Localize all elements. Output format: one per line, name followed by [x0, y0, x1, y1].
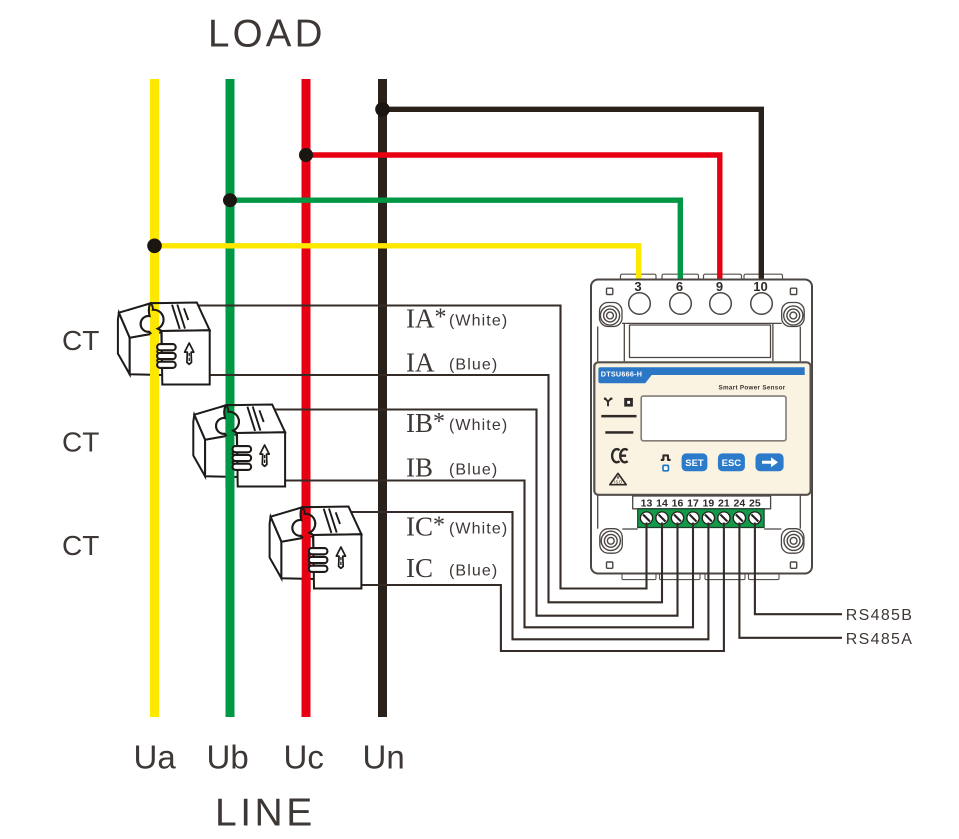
svg-text:(Blue): (Blue): [449, 462, 498, 479]
svg-text:LOAD: LOAD: [208, 13, 326, 56]
bar icon 2: [605, 431, 633, 434]
svg-text:RS485B: RS485B: [846, 607, 913, 624]
wire IC* white : CT3 to terminal 19: [348, 512, 708, 639]
svg-text:IB*: IB*: [406, 408, 445, 438]
svg-text:CT: CT: [62, 530, 99, 561]
antenna icon: [605, 398, 611, 406]
SET button: [682, 453, 708, 471]
svg-text:24: 24: [734, 498, 746, 510]
svg-text:Ua: Ua: [134, 739, 177, 776]
warning triangle: [610, 473, 626, 484]
phase line Ua (yellow vertical): [150, 79, 159, 717]
wire IB* white : CT2 to terminal 16: [272, 410, 678, 616]
wire: Ua branch to terminal 3: [155, 246, 639, 279]
wire RS485B from terminal 25: [755, 523, 842, 615]
LCD display: [641, 396, 786, 441]
wire RS485A from terminal 24: [739, 523, 842, 638]
svg-text:14: 14: [656, 498, 668, 510]
svg-text:13: 13: [641, 498, 653, 510]
svg-text:(White): (White): [449, 521, 508, 538]
wiring window: [630, 325, 771, 358]
pulse icon: [661, 455, 671, 460]
svg-text:IC: IC: [406, 553, 433, 583]
svg-text:IA*: IA*: [406, 304, 447, 334]
junction dot on Un: [375, 102, 390, 117]
wire IA* white : CT1 to terminal 13: [197, 306, 647, 589]
phase line Uc (red vertical): [302, 79, 311, 717]
CT clamp 2 (phase B): [193, 405, 285, 489]
terminal numbers 3 6 9 10: [634, 279, 767, 294]
corner screw bottom-left: [601, 531, 620, 550]
svg-text:IA: IA: [406, 347, 435, 377]
svg-text:9: 9: [716, 279, 723, 294]
corner screw top-left: [600, 306, 619, 325]
wire IC blue : CT3 to terminal 21: [357, 523, 724, 652]
bottom plate cuts: [598, 495, 804, 553]
svg-text:3: 3: [634, 279, 641, 294]
svg-text:ESC: ESC: [722, 458, 742, 469]
svg-text:CT: CT: [62, 325, 99, 356]
svg-text:LINE: LINE: [215, 792, 316, 835]
wire IB blue : CT2 to terminal 17: [281, 481, 693, 628]
arrow button: [756, 453, 784, 471]
svg-text:CT: CT: [62, 427, 99, 458]
svg-text:Uc: Uc: [284, 739, 324, 776]
junction dot on Ua: [147, 239, 162, 254]
junction dot on Uc: [299, 148, 313, 162]
terminal screws: [640, 512, 761, 524]
wire: Uc branch to terminal 9: [306, 155, 720, 279]
svg-text:Un: Un: [363, 739, 405, 776]
wire IA blue : CT1 to terminal 14: [205, 375, 662, 602]
svg-text:SET: SET: [685, 458, 704, 469]
svg-text:(Blue): (Blue): [449, 563, 498, 580]
small square top-left: [607, 288, 613, 294]
svg-text:(Blue): (Blue): [449, 357, 498, 374]
svg-text:Ub: Ub: [207, 739, 249, 776]
wire: Ub branch to terminal 6: [230, 200, 680, 279]
wire: Un branch to terminal 10: [383, 109, 762, 279]
small square top-right: [790, 288, 796, 294]
small square bottom-right: [790, 562, 796, 568]
corner screw top-right: [784, 306, 803, 325]
meter body: [591, 280, 812, 574]
svg-text:DTSU666-H: DTSU666-H: [601, 370, 642, 379]
meter bottom rail tabs: [622, 573, 779, 580]
phase line Ub (green vertical): [226, 79, 235, 717]
svg-text:IB: IB: [406, 452, 433, 482]
neutral line Un (black vertical): [378, 79, 387, 717]
svg-text:RS485A: RS485A: [846, 631, 913, 648]
svg-text:Smart Power Sensor: Smart Power Sensor: [719, 385, 786, 392]
svg-text:17: 17: [687, 498, 699, 510]
svg-text:IC*: IC*: [406, 512, 445, 542]
svg-text:19: 19: [703, 498, 715, 510]
svg-text:6: 6: [676, 279, 683, 294]
CT clamp 3 (phase C): [270, 507, 362, 593]
meter top cover tabs: [621, 274, 783, 281]
square icon: [624, 398, 633, 407]
CT clamp 1 (phase A): [118, 303, 210, 387]
top plate line under circles: [598, 303, 805, 362]
front panel: [594, 362, 810, 495]
bar icon 1: [601, 415, 636, 418]
svg-text:(White): (White): [449, 417, 508, 434]
CE mark: [612, 449, 628, 462]
corner screw bottom-right: [784, 531, 803, 550]
blue header bar: [598, 367, 804, 383]
small square bottom-left: [607, 562, 613, 568]
svg-text:(White): (White): [449, 313, 508, 330]
terminal block (green): [638, 509, 764, 528]
svg-text:10: 10: [753, 279, 767, 294]
terminal number strip: [633, 496, 771, 509]
junction dot on Ub: [223, 193, 237, 207]
svg-text:25: 25: [749, 498, 761, 510]
svg-text:16: 16: [672, 498, 684, 510]
svg-text:21: 21: [718, 498, 730, 510]
ESC button: [718, 453, 745, 471]
pulse blue square: [663, 465, 668, 470]
terminal entry circles: [629, 293, 773, 315]
svg-text:ISO: ISO: [614, 479, 623, 484]
